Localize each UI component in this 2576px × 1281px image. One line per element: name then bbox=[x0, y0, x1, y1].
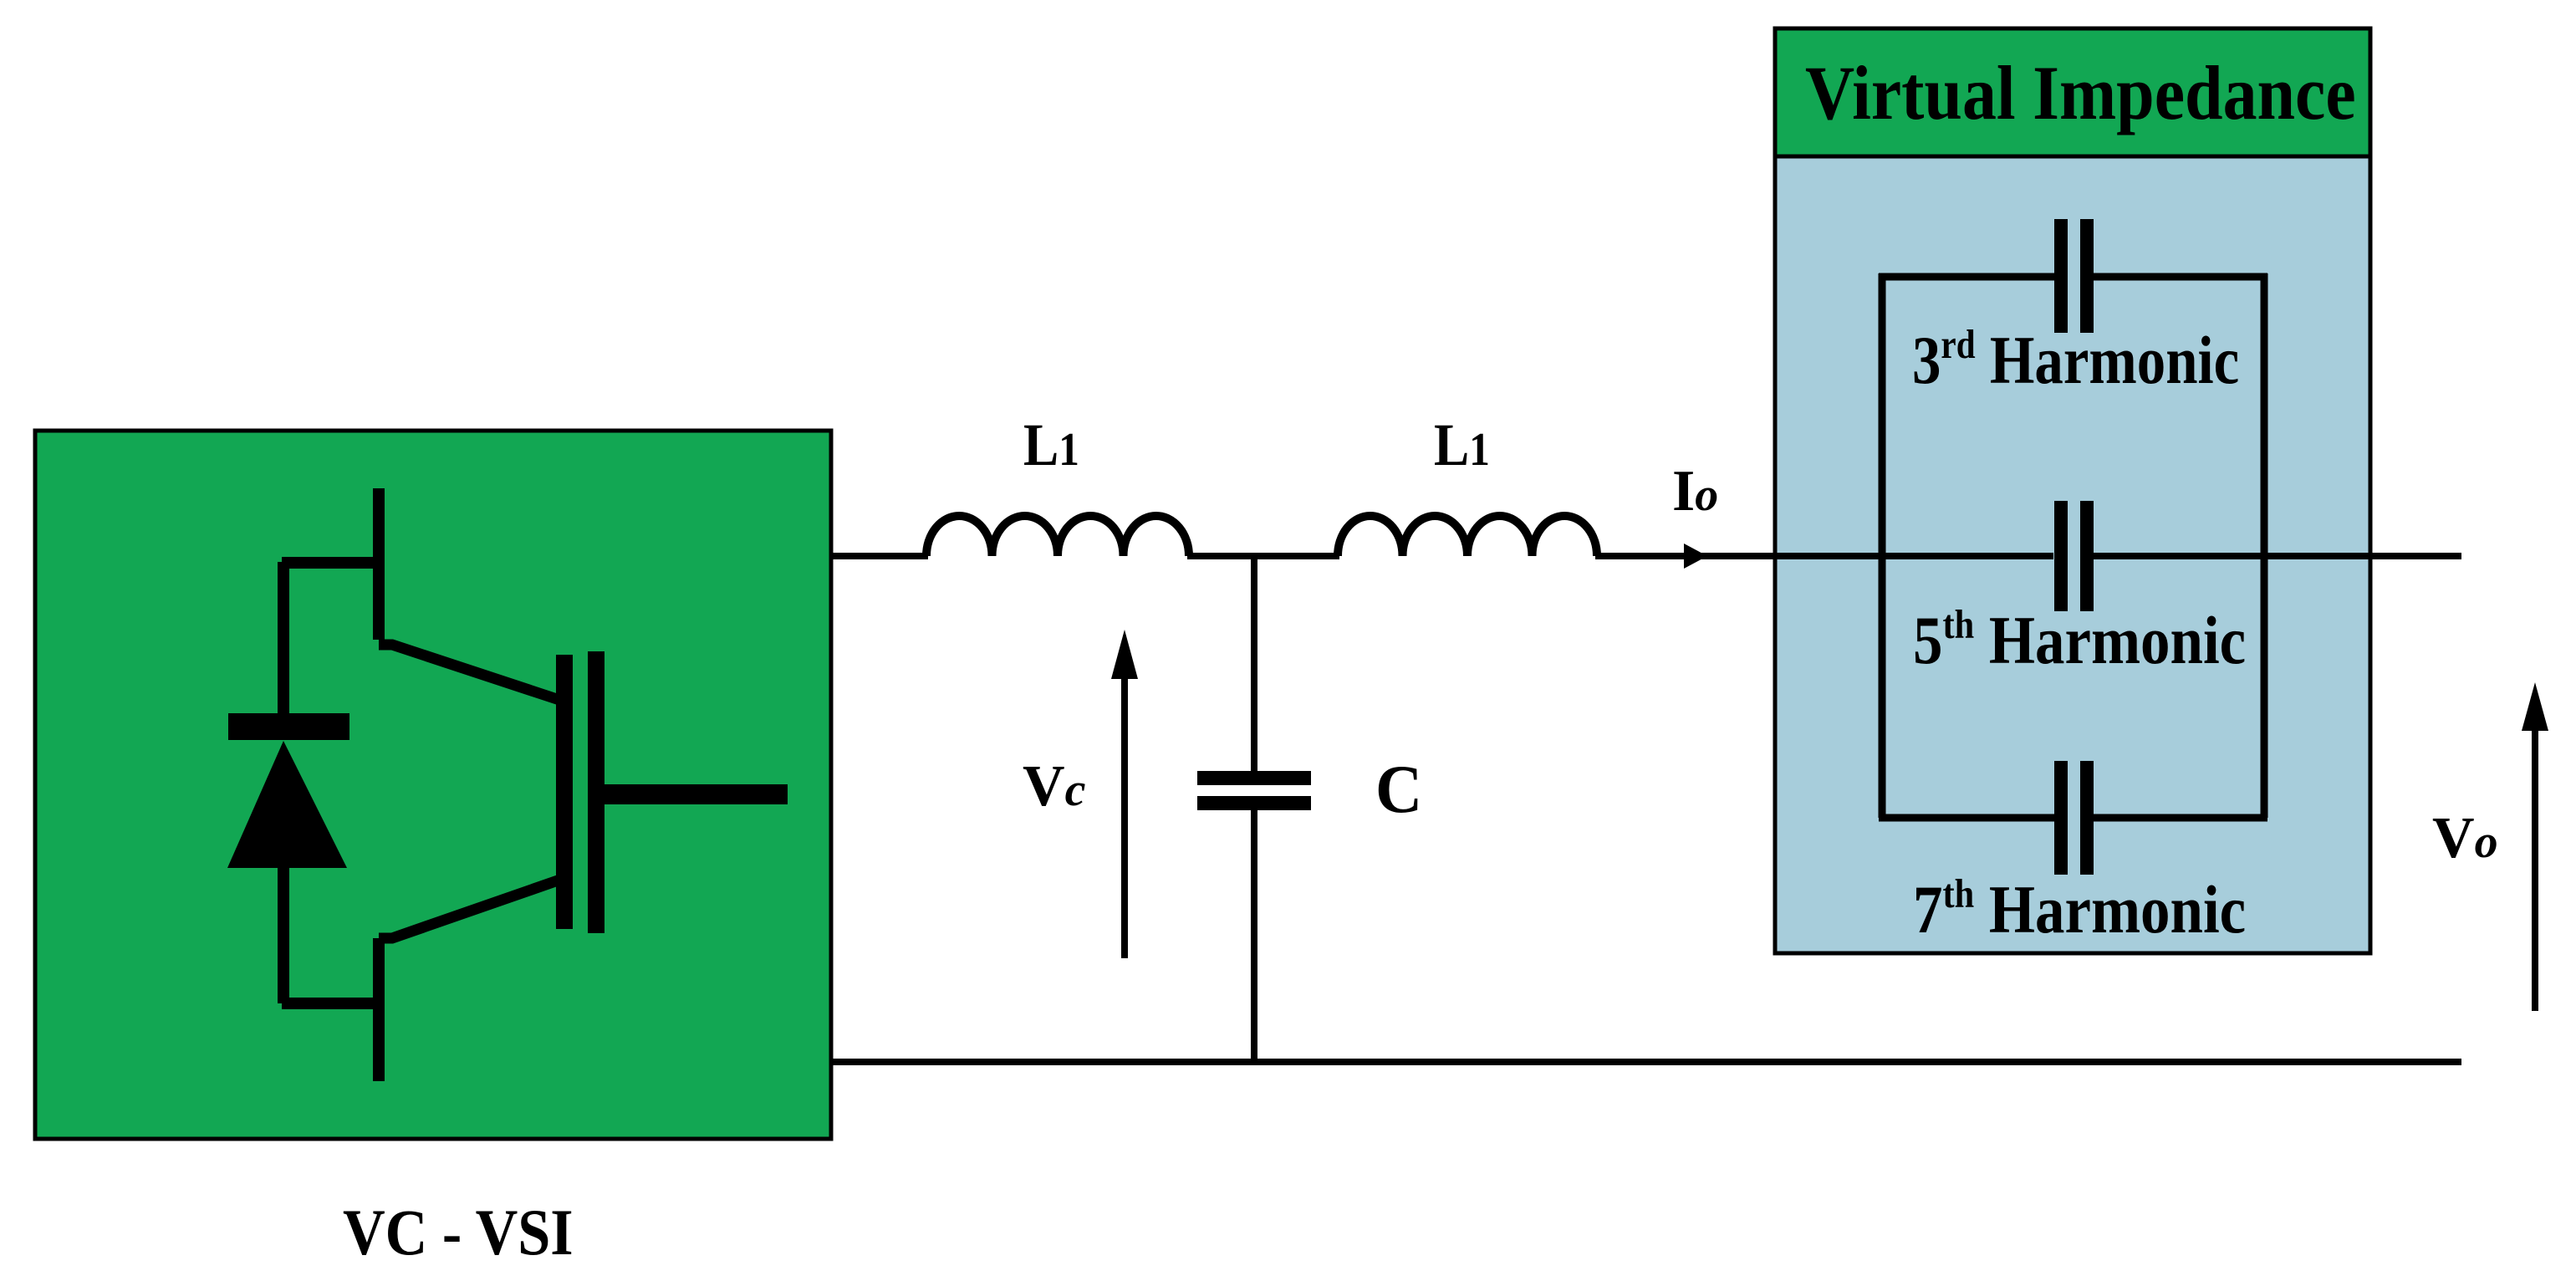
svg-text:Vc: Vc bbox=[1023, 754, 1086, 819]
wire: top rail right segment bbox=[2093, 553, 2461, 559]
svg-text:VC - VSI: VC - VSI bbox=[343, 1197, 574, 1269]
wire: capacitor C to bottom rail bbox=[1251, 810, 1257, 1062]
label 5th Harmonic bbox=[1913, 601, 2246, 678]
diode D1 cathode bar bbox=[228, 713, 349, 740]
diode D1 lower lead bbox=[278, 868, 289, 1003]
inductor L1 (second) bbox=[1338, 516, 1597, 556]
capacitor C top plate bbox=[1197, 771, 1311, 785]
label Vc bbox=[1023, 754, 1086, 819]
diode D1 triangle (anode) bbox=[227, 741, 347, 868]
label Vo bbox=[2432, 806, 2498, 870]
wire: bracket top edge segments bbox=[1879, 273, 2267, 281]
label 3rd Harmonic bbox=[1912, 322, 2239, 399]
svg-text:Virtual Impedance: Virtual Impedance bbox=[1805, 50, 2356, 135]
transistor Q1 upper diagonal (collector) bbox=[379, 645, 562, 701]
capacitor 7th harmonic plates bbox=[2054, 761, 2068, 875]
arrow Vo bbox=[2532, 726, 2538, 1011]
label Virtual Impedance bbox=[1805, 50, 2356, 135]
capacitor 3rd harmonic plates bbox=[2054, 219, 2068, 333]
arrow Vc bbox=[1121, 676, 1128, 958]
label Io bbox=[1672, 459, 1718, 523]
label C bbox=[1375, 752, 1422, 827]
inductor L1 (first) bbox=[926, 516, 1189, 556]
transistor Q1 left bar bbox=[556, 655, 573, 929]
wire: top rail inductor2 to box bbox=[1595, 553, 2053, 559]
virtual impedance box (blue body) bbox=[1775, 28, 2370, 953]
transistor Q1 right bar bbox=[588, 651, 604, 933]
capacitor C bottom plate bbox=[1197, 796, 1311, 810]
label L1 (first) bbox=[1023, 411, 1079, 478]
wire: junction down to capacitor C bbox=[1251, 556, 1257, 771]
wire: bottom rail bbox=[831, 1059, 2461, 1065]
capacitor 5th harmonic plates bbox=[2054, 501, 2068, 611]
transistor Q1 gate lead bbox=[604, 784, 788, 804]
transistor Q1 lower diagonal (emitter) bbox=[379, 880, 560, 938]
transistor Q1 collector lead bbox=[373, 488, 385, 640]
arrowhead Io on top rail bbox=[1684, 544, 1707, 569]
node bracket: left vertical bbox=[1879, 273, 1886, 818]
wire collector-to-diode top bbox=[282, 557, 379, 569]
svg-text:Io: Io bbox=[1672, 459, 1718, 523]
svg-text:Vo: Vo bbox=[2432, 806, 2498, 870]
wire: bracket bottom edge segments bbox=[1879, 814, 2267, 822]
diode D1 upper lead bbox=[278, 562, 289, 713]
svg-text:C: C bbox=[1375, 752, 1422, 827]
label VC - VSI bbox=[343, 1197, 574, 1269]
node bracket: right vertical bbox=[2261, 273, 2268, 818]
label 7th Harmonic bbox=[1913, 870, 2246, 947]
virtual impedance header (green) bbox=[1775, 28, 2370, 156]
label L1 (second) bbox=[1434, 411, 1490, 478]
wire: top rail between inductors bbox=[1187, 553, 1339, 559]
wire: top rail left segment bbox=[831, 553, 928, 559]
transistor Q1 emitter lead bbox=[373, 938, 385, 1081]
inverter block VC-VSI (green box) bbox=[35, 431, 831, 1139]
wire emitter-to-diode bottom bbox=[282, 998, 379, 1009]
